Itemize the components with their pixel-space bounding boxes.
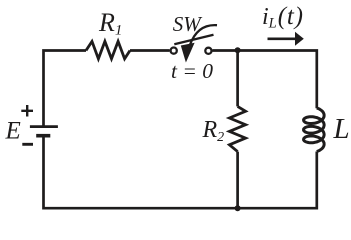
resistor R2 <box>229 106 245 151</box>
wire: switch right contact to node A <box>213 49 238 52</box>
switch SW: closing-motion arrowhead <box>181 43 195 63</box>
svg-text:R2: R2 <box>202 117 225 145</box>
svg-text:SW: SW <box>173 12 204 36</box>
wire: R1 to switch left contact <box>130 49 170 52</box>
battery E: positive plate (long) <box>30 125 58 128</box>
battery - sign <box>22 143 33 146</box>
wire: node A to top-right corner and down to inductor <box>238 51 317 109</box>
svg-text:iL(t): iL(t) <box>262 3 304 32</box>
switch SW: blade (open arm) <box>174 35 213 44</box>
svg-text:L: L <box>333 113 350 145</box>
switch SW: right contact <box>205 48 211 54</box>
node A (top junction dot) <box>235 47 241 53</box>
wire: inductor to bottom-right corner and to node B <box>238 152 317 209</box>
resistor R1 <box>86 41 130 58</box>
current arrow iL(t) <box>268 37 296 40</box>
inductor L (coil) <box>304 108 325 152</box>
svg-text:t = 0: t = 0 <box>171 59 213 83</box>
wire: node A down to R2 <box>236 51 239 107</box>
wire: R2 to node B <box>236 152 239 209</box>
wire: node B along bottom to battery - terminal <box>44 137 238 208</box>
svg-text:E: E <box>5 118 21 145</box>
node B (bottom junction dot) <box>235 205 241 211</box>
switch SW: closing-motion arc <box>190 25 217 45</box>
wire: battery + terminal up left side and across to R1 <box>44 51 87 126</box>
svg-text:R1: R1 <box>98 8 122 39</box>
switch SW: left contact <box>171 48 177 54</box>
battery + sign <box>21 105 33 117</box>
battery E: negative plate (short thick) <box>36 134 50 138</box>
